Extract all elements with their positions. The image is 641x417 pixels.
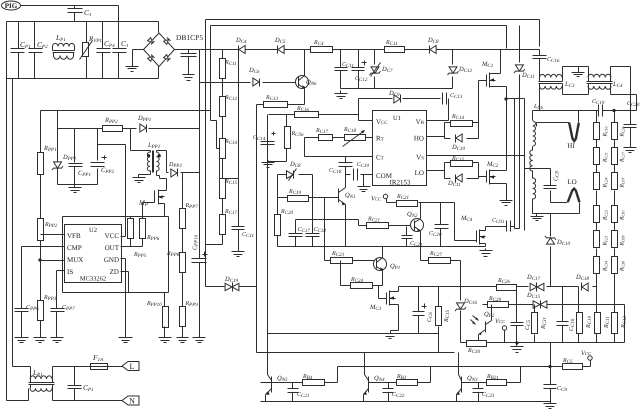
junction Lpp1 dot R (158, 154, 161, 157)
wire Lpp1 feed (131, 129, 151, 151)
ground Cpp6 ground (15, 335, 29, 343)
resistor ladder L1 (594, 123, 600, 140)
inductor Lpp1 left (147, 152, 150, 171)
svg-text:L: L (130, 362, 135, 371)
transistor Qn6 (296, 76, 309, 89)
resistor Rc19 (288, 196, 309, 202)
resistor ladder R3 (612, 173, 618, 190)
wire Cp4 branch (102, 22, 104, 79)
wire Dc6 feed (200, 82, 251, 84)
wire y366 rail (338, 366, 551, 368)
transistor Qp1 (374, 258, 387, 271)
wire C1b branch (118, 22, 120, 79)
svg-text:DB1CP5: DB1CP5 (176, 33, 203, 42)
svg-text:MUX: MUX (67, 256, 83, 264)
wire N feed (7, 389, 29, 401)
resistor Rpp2 (103, 126, 123, 132)
resistor Rb3 (397, 380, 418, 386)
capacitor Cc19 (599, 105, 603, 117)
resistor Rpp4 (38, 301, 44, 321)
resistor Rc14v (220, 139, 226, 159)
svg-text:RC17: RC17 (620, 151, 626, 163)
resistor Rc14 (451, 121, 473, 127)
MOSFET Mp (155, 190, 165, 205)
capacitor Cc21 (288, 389, 299, 393)
resistor Rpp9 (180, 307, 186, 327)
resistor Rc34 (612, 313, 618, 334)
wire Rc20 leads (277, 236, 279, 247)
inductor Lc4 bottom (588, 86, 611, 89)
wire mid gnd stem (578, 67, 580, 70)
capacitor Cc14 (261, 142, 275, 145)
junction gnd node (515, 341, 518, 344)
wire Dc7 branch (374, 50, 376, 89)
wire Cc8 top (525, 169, 551, 186)
resistor Rc22 (397, 201, 418, 207)
wire Mc2 source (496, 184, 507, 199)
wire Qn1 emitter (345, 205, 347, 247)
wire Mp gate (143, 203, 155, 219)
wire corner right (539, 20, 541, 47)
resistor ladder L3 (594, 173, 600, 190)
wire Dc10v branch (550, 214, 552, 287)
Lc4 stubs (589, 78, 611, 87)
inductor Lpp1 right (157, 152, 160, 171)
wire DC bus (175, 49, 540, 51)
wire Rc23 lead (325, 198, 375, 261)
ground mid rail ground (480, 249, 493, 257)
wire Rc27 leads (421, 247, 461, 301)
fuse F1A (91, 364, 109, 370)
wire CT (305, 156, 373, 158)
wire Qn6 collector (304, 50, 306, 76)
svg-text:RC30: RC30 (620, 261, 626, 272)
resistor Rc11 (220, 59, 226, 79)
resistor Rc31 (532, 313, 538, 334)
wire bottom rail (261, 401, 551, 403)
wire staircase (211, 121, 239, 179)
input box frame (7, 22, 159, 79)
svg-text:RC01: RC01 (620, 210, 626, 221)
wire Cpp10 branch (199, 50, 201, 335)
wire LO right (579, 203, 581, 214)
wire VCC pin (121, 236, 126, 238)
wire Cc16 branch (539, 50, 541, 78)
wire Cc6 branch (418, 287, 420, 334)
svg-text:U1: U1 (393, 115, 401, 122)
inductor Lp2 bottom winding (30, 388, 52, 391)
Lpp1 core (153, 151, 154, 173)
diode Dpp2 (140, 124, 147, 133)
ground COM ground (358, 185, 371, 192)
wire Rc32 branch (578, 287, 580, 343)
inductor Lp2 top winding (30, 376, 52, 379)
wire Cc17 branch (296, 220, 359, 247)
wire fuse to L (109, 366, 123, 368)
wire Rc33 branch (596, 287, 598, 343)
wire Mc2 gate (479, 177, 487, 179)
capacitor C1b (113, 49, 127, 53)
svg-text:ZD: ZD (110, 268, 119, 276)
ground Mc2 ground (500, 199, 513, 206)
ground Rpp4 ground (34, 335, 47, 343)
resistor Rc15v (220, 179, 226, 199)
wire Lpp1 right top (157, 151, 167, 169)
wire base rail 3 (462, 367, 521, 383)
lamp filament HI (537, 111, 579, 142)
wire LO frame (445, 163, 479, 179)
resistor Rc35 (563, 364, 583, 370)
wire Dc6 to base (263, 82, 299, 84)
wire bridge bottom (158, 67, 160, 79)
wire mains top (21, 6, 119, 22)
bridge rectifier DB1CP5 (144, 33, 175, 67)
junction MUX node (38, 258, 41, 261)
transistor Qn3 (456, 375, 461, 395)
resistor Rc17v (220, 215, 226, 235)
resistor ladder R1 (612, 123, 618, 140)
wire y287 rail (399, 286, 597, 288)
ground Cpp7 ground (51, 335, 64, 343)
wire ladder right spine (614, 111, 616, 305)
svg-text:VFB: VFB (67, 232, 81, 240)
wire Qn6 emitter (287, 89, 305, 105)
wire Vcc opto stem (504, 331, 506, 343)
zener diode Dc11b (514, 65, 525, 73)
svg-text:RC16: RC16 (603, 126, 609, 137)
capacitor Cc21b (402, 236, 413, 239)
wire Rc34 branch (614, 305, 616, 343)
wire Cc21 branch (406, 227, 408, 247)
wire Dc8b rail (278, 175, 313, 233)
bidirectional zener Dc15 (533, 301, 547, 309)
capacitor Cc01 (507, 221, 511, 232)
wire bridge top (158, 22, 160, 33)
transistor Qn1 (339, 188, 346, 206)
Lp2 core (29, 383, 55, 385)
diode Dc9 (394, 95, 401, 104)
wire Qn1 collector (345, 175, 347, 188)
capacitor Cc12 (352, 68, 365, 71)
resistor Rc32 (577, 313, 583, 334)
wire Lc4 out (611, 67, 637, 111)
resistor Rc12 (220, 97, 226, 117)
wire Cc20 branch (630, 111, 632, 145)
resistor Rc20 (275, 215, 281, 236)
choke Lp1 (0, 0, 1, 1)
wire Mc1 source (496, 87, 507, 99)
wire pfc top (41, 110, 211, 112)
diode Dc6 (253, 78, 260, 87)
MOSFET Mc1 (487, 73, 496, 88)
resistor Rpp1 (38, 153, 44, 175)
svg-text:LO: LO (567, 178, 576, 186)
resistor Rc56 (285, 127, 291, 149)
ground Lc5 ground (531, 214, 544, 221)
svg-text:LO: LO (415, 169, 424, 177)
wire vcc feed (149, 128, 200, 130)
wire bus x514 (507, 99, 525, 229)
wire boost out (181, 172, 200, 174)
svg-text:RC24: RC24 (603, 177, 609, 188)
lamp filament LO (568, 189, 580, 203)
wire to fuse (53, 367, 91, 379)
svg-text:OUT: OUT (105, 244, 120, 252)
ground Cc11b ground (232, 249, 245, 257)
wire Cp5 branch (74, 367, 76, 401)
wire COM (346, 175, 373, 185)
capacitor Cpp7 (51, 309, 65, 312)
wire Cpp2 tap (98, 145, 126, 237)
wire Cp2 branch (34, 22, 36, 79)
connector PIG (2, 1, 21, 10)
wire Rc22 out (419, 203, 455, 241)
wire Lpp1 right bottom (157, 171, 160, 176)
wire Mc3 source (391, 305, 399, 331)
wire Mc1 drain (496, 50, 501, 74)
capacitor Cc20 (624, 125, 637, 128)
ground rail ground (335, 91, 348, 99)
ground bottom right ground (544, 401, 557, 409)
resistor Rpp7 (180, 209, 186, 229)
wire Rpp6 leads (142, 239, 144, 247)
wire mid rail (278, 246, 486, 248)
wire Qn3 collector (458, 353, 460, 375)
wire Dpp box feed (57, 111, 59, 129)
wire L feed (13, 367, 31, 379)
wire Qp1 collector (382, 247, 384, 258)
svg-text:VCC: VCC (371, 196, 382, 203)
wire HO (427, 136, 445, 138)
wire Lc3-Lc4 top (563, 67, 589, 78)
ground input ground (126, 65, 139, 72)
capacitor Cc18b (339, 163, 353, 167)
wire Cpp7 gnd (56, 312, 58, 335)
ground Cc20 ground (624, 145, 637, 153)
wire Qn5 collector (267, 373, 269, 375)
optocoupler Qp2 (471, 316, 492, 336)
wire Cc20b branch (440, 203, 442, 247)
zener diode Dc16 (455, 303, 466, 311)
transistor Qn4 (363, 375, 368, 395)
capacitor Cp2 (29, 49, 43, 53)
resistor ladder L6 (594, 257, 600, 274)
Lc3 stubs (540, 78, 563, 87)
junction Lpp1 dot L (147, 154, 150, 157)
capacitor Cc18 (306, 234, 320, 237)
resistor Rpp10 (163, 307, 169, 328)
inductor Lc3 top (540, 74, 563, 77)
wire Mc4 gate (455, 240, 477, 242)
inductor Lp1 top winding (53, 43, 75, 46)
wire Qp2 emitter (478, 335, 480, 343)
capacitor Cc13 (443, 93, 447, 105)
resistor Rpp6 (140, 219, 146, 239)
wire y352 rail (257, 334, 455, 353)
wire Rc21b leads (359, 225, 415, 227)
wire boost diode (167, 169, 169, 173)
wire Rc56 leads (269, 115, 287, 162)
junction Vcc2 node (548, 365, 551, 368)
wire chain (206, 50, 225, 287)
wire zener rail (341, 88, 453, 90)
wire Rpp2 lead (98, 128, 137, 130)
wire Lpp1 left gnd (139, 151, 151, 175)
varistor Rvp1 (80, 41, 93, 60)
wire Cc23 branch (478, 383, 480, 402)
resistor ladder R6 (612, 257, 618, 274)
svg-text:IS: IS (67, 268, 73, 276)
wire Dc12 branch (452, 50, 454, 89)
wire left feed B (6, 79, 8, 401)
svg-text:RC34: RC34 (603, 261, 609, 272)
MOSFET Mc3 (387, 291, 396, 306)
wire Mc1 gate (479, 81, 487, 123)
capacitor Cc23 (473, 389, 484, 393)
capacitor Cc16 (533, 56, 547, 59)
ground Dpp box ground (69, 185, 82, 193)
wire Rc22 rail (387, 199, 397, 203)
IC U1 IR2153 (373, 111, 427, 187)
svg-text:HO: HO (414, 135, 424, 143)
wire base rail 2 (369, 367, 431, 383)
wire CMP (22, 247, 65, 309)
svg-text:CMP: CMP (67, 244, 82, 252)
diode Dc8a (430, 46, 437, 54)
svg-text:HI: HI (567, 142, 575, 150)
wire ladder left spine (596, 111, 598, 287)
resistor ladder R5 (612, 231, 618, 248)
wire Vcc2 stem (583, 361, 591, 367)
resistor Rc16h (295, 112, 319, 118)
wire Cpp6 gnd (21, 312, 23, 335)
inductor Lc5 upper (533, 121, 536, 146)
inductor Lc5 (0, 0, 1, 1)
zener diode Dc8b (287, 169, 297, 181)
capacitor Ccb (544, 385, 557, 389)
wire Qp2 collector (491, 305, 493, 321)
zener diode Dc12 (448, 67, 459, 75)
Lp2 stubs (31, 379, 53, 389)
transistor Qn5 (266, 375, 272, 395)
wire Rc24 left (341, 261, 351, 286)
wire Rpp7 chain (182, 173, 184, 335)
ground Lpp1 ground (133, 175, 146, 183)
wire Rpp1 branch (40, 111, 42, 335)
capacitor C1 (68, 9, 83, 13)
svg-text:N: N (129, 397, 135, 406)
resistor Rpp3 (38, 219, 44, 241)
wire LO (427, 170, 445, 172)
wire RT (305, 138, 373, 157)
resistor Rc21b (367, 223, 389, 229)
wire Mc4 source (485, 244, 487, 247)
Lc4 core (587, 82, 613, 84)
wire Dc19 out (239, 286, 257, 288)
MOSFET Mp (0, 0, 1, 1)
capacitor Cp5 (68, 386, 82, 389)
capacitor Cc19b (354, 169, 358, 181)
wire Qn5 emitter (265, 395, 267, 402)
wire Qn4 emitter (363, 395, 365, 402)
ground Rpp9 ground (177, 335, 189, 343)
wire Mc3 drain (396, 287, 399, 292)
wire right loop (624, 305, 626, 343)
resistor Rc29 (488, 302, 509, 308)
svg-text:RC25: RC25 (603, 210, 609, 221)
ground C2 ground (183, 73, 195, 81)
resistor ladder L5 (594, 231, 600, 248)
wire inner loop (211, 26, 507, 121)
wire Qn2 collector (420, 203, 422, 219)
capacitor Cp1 (11, 49, 25, 53)
wire Qp1 emitter (373, 271, 383, 286)
wire left feed A (12, 79, 14, 367)
wire Rpp10 top (164, 293, 166, 307)
wire ZD pin (121, 272, 129, 293)
wire Qn4 collector (364, 353, 366, 375)
capacitor Cc5 (511, 323, 524, 326)
wire bus x525 (524, 99, 526, 231)
wire IS (57, 271, 65, 309)
node Vcc opto (495, 318, 507, 330)
inductor Lc5 middle (530, 150, 533, 171)
wire bridge left to ground (133, 50, 144, 65)
wire Cc01 out (511, 226, 515, 228)
capacitor Cc11a (335, 68, 348, 71)
wire Cc5 branch (516, 287, 518, 343)
svg-text:U2: U2 (89, 227, 97, 234)
resistor Rc4 (311, 47, 333, 53)
wire MUX (41, 260, 65, 262)
svg-text:RC07: RC07 (620, 176, 626, 188)
inductor Lc5 lower (533, 178, 536, 199)
wire Cp1 branch (18, 22, 20, 79)
ground main right ground (511, 345, 524, 353)
wire Ccb branch (550, 343, 552, 401)
resistor Rc23 (331, 258, 353, 264)
svg-text:IR2153: IR2153 (390, 179, 412, 187)
zener diode Dpp1 (52, 162, 63, 170)
wire Lc3-Lc4 bottom (540, 87, 589, 111)
MOSFET Mc4 (477, 230, 486, 245)
ground U2 ground (119, 335, 133, 343)
capacitor Cc22 (383, 389, 394, 393)
svg-text:VCC: VCC (105, 232, 120, 240)
resistor ladder left (0, 0, 1, 1)
wire Rc35 lead (551, 366, 563, 368)
wire lamp rail (533, 110, 637, 112)
capacitor Cc20b (435, 225, 449, 229)
wire HO frame (445, 123, 479, 139)
wire Rc19 rail (278, 175, 339, 215)
wire Cc18b branch (345, 157, 347, 175)
resistor Rpp5 (128, 219, 134, 239)
wire Rc29 rail (483, 304, 625, 306)
wire bus x518 (519, 26, 521, 229)
capacitor C2 (181, 54, 197, 57)
resistor Rc26 (497, 285, 517, 291)
wire Rpp10 gnd (164, 327, 166, 335)
ground Cc14 ground (262, 161, 275, 168)
wire Rvp1 branch (86, 22, 88, 79)
resistor ladder L2 (594, 148, 600, 165)
wire Rc28 branch (438, 287, 440, 334)
wire Lc5 gnd (533, 213, 580, 215)
wire Mc4 drain (486, 227, 507, 231)
capacitor Cpp1 (69, 164, 83, 167)
svg-text:RC26: RC26 (620, 126, 626, 137)
